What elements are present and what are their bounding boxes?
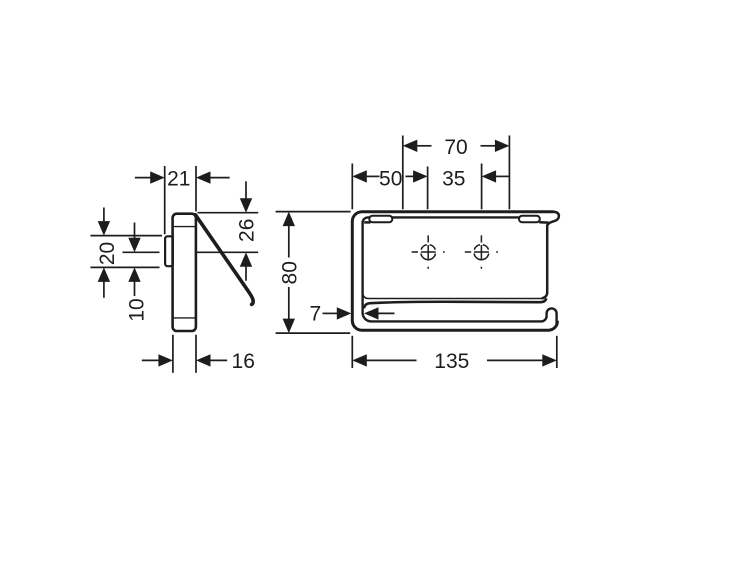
svg-text:21: 21 bbox=[167, 167, 190, 190]
dimension 135 extension line right bbox=[556, 336, 558, 368]
top bar inner lip left segment bbox=[364, 221, 370, 224]
dimension 135 right arrow bbox=[487, 359, 543, 361]
dimension 70 left arrow bbox=[417, 145, 432, 147]
svg-text:35: 35 bbox=[442, 167, 465, 190]
dimension 20 top arrow bbox=[103, 208, 105, 223]
svg-text:20: 20 bbox=[96, 242, 119, 265]
dimension 21 left arrow bbox=[135, 177, 151, 179]
dimension 7 arrow inner bbox=[378, 312, 395, 314]
dimension 135 extension line left bbox=[351, 336, 353, 368]
dimension 50/35 middle extension line bbox=[427, 167, 429, 210]
dimension 50 right arrow bbox=[406, 175, 415, 177]
side view body bbox=[173, 214, 196, 331]
side view roll arm bbox=[195, 215, 253, 305]
back plate bottom thin edge bbox=[363, 224, 542, 299]
dimension 20 extension line bottom bbox=[90, 266, 159, 268]
dimension 35 extension line right bbox=[481, 164, 483, 210]
dimension 70 extension line left bbox=[402, 136, 404, 210]
dimension 21 extension line right bbox=[195, 166, 197, 211]
front inner contour line with bottom-right curl bbox=[363, 217, 557, 323]
dimension 135 left arrow bbox=[367, 359, 417, 361]
dimension 70 right arrow bbox=[481, 145, 496, 147]
svg-text:50: 50 bbox=[379, 167, 402, 190]
dimension 16 extension line right bbox=[195, 335, 197, 373]
dimension 20 extension line top bbox=[90, 235, 162, 237]
side view top cap line bbox=[174, 226, 195, 228]
svg-text:16: 16 bbox=[232, 350, 255, 373]
svg-text:7: 7 bbox=[310, 302, 322, 325]
right mounting slot bbox=[519, 216, 540, 223]
dimension 26 extension line top bbox=[198, 212, 259, 214]
dimension 70 extension line right bbox=[508, 136, 510, 210]
svg-text:80: 80 bbox=[278, 261, 301, 284]
front outer frame bbox=[352, 212, 557, 331]
dimension 80 extension line bottom bbox=[276, 332, 351, 334]
dimension 16 left arrow bbox=[142, 359, 159, 361]
right mounting hole crosshair bbox=[465, 235, 498, 268]
dimension 50 left arrow bbox=[366, 175, 380, 177]
dimension 16 extension line left bbox=[172, 335, 174, 373]
front top-right hook and back plate right edge bbox=[542, 212, 559, 299]
left mounting slot bbox=[369, 216, 392, 223]
dimension 80 extension line top bbox=[276, 211, 351, 213]
dimension 80 line bottom segment with arrow bbox=[288, 287, 290, 320]
svg-text:135: 135 bbox=[434, 350, 469, 373]
dimension 16 right arrow bbox=[210, 359, 227, 361]
svg-text:70: 70 bbox=[444, 136, 467, 159]
dimension 26 bottom arrow bbox=[245, 266, 247, 281]
side view wall plate bbox=[165, 236, 173, 266]
dimension 80 line top segment with arrow bbox=[288, 225, 290, 258]
left mounting hole crosshair bbox=[412, 235, 445, 268]
dimension 50 extension line left bbox=[351, 164, 353, 210]
side view bottom cap line bbox=[174, 317, 195, 319]
top bar inner lip right segment bbox=[539, 221, 548, 224]
dimension 10 extension line (hole centre left) bbox=[123, 251, 160, 253]
dimension 26 extension line bottom (hole centre) bbox=[197, 251, 258, 253]
front cover bottom edge (bowed) bbox=[364, 298, 546, 308]
dimension 10 bottom arrow bbox=[134, 281, 136, 296]
dimension 35 arrow bbox=[496, 175, 510, 177]
dimension 7 arrow outer bbox=[323, 312, 339, 314]
dimension 21 extension line left bbox=[164, 166, 166, 234]
dimension 10 top arrow bbox=[134, 223, 136, 240]
dimension 26 top arrow bbox=[245, 181, 247, 199]
dimension 21 right arrow bbox=[210, 177, 230, 179]
dimension 20 bottom arrow bbox=[103, 281, 105, 298]
svg-text:10: 10 bbox=[126, 298, 149, 321]
svg-text:26: 26 bbox=[235, 219, 258, 242]
